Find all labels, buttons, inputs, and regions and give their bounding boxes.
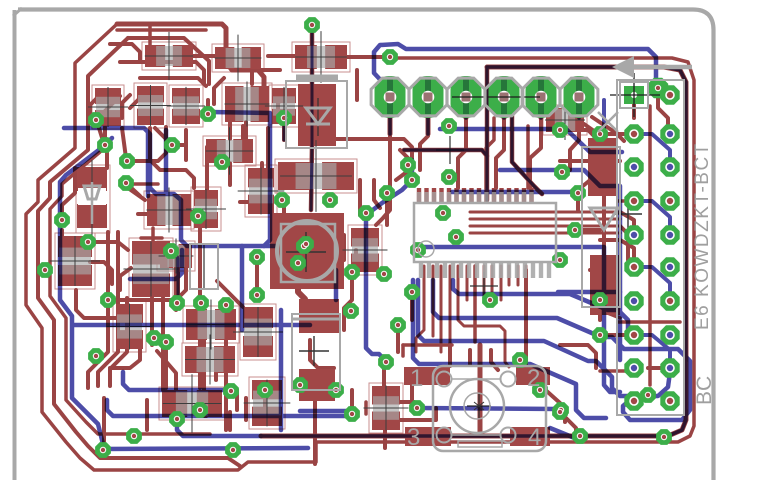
svg-text:BC: BC (693, 376, 716, 405)
svg-text:E6 KOWDZKT-BCT: E6 KOWDZKT-BCT (692, 142, 713, 330)
svg-text:1: 1 (410, 365, 423, 392)
svg-text:4: 4 (528, 424, 541, 451)
svg-text:3: 3 (407, 424, 420, 451)
svg-text:2: 2 (527, 365, 540, 392)
